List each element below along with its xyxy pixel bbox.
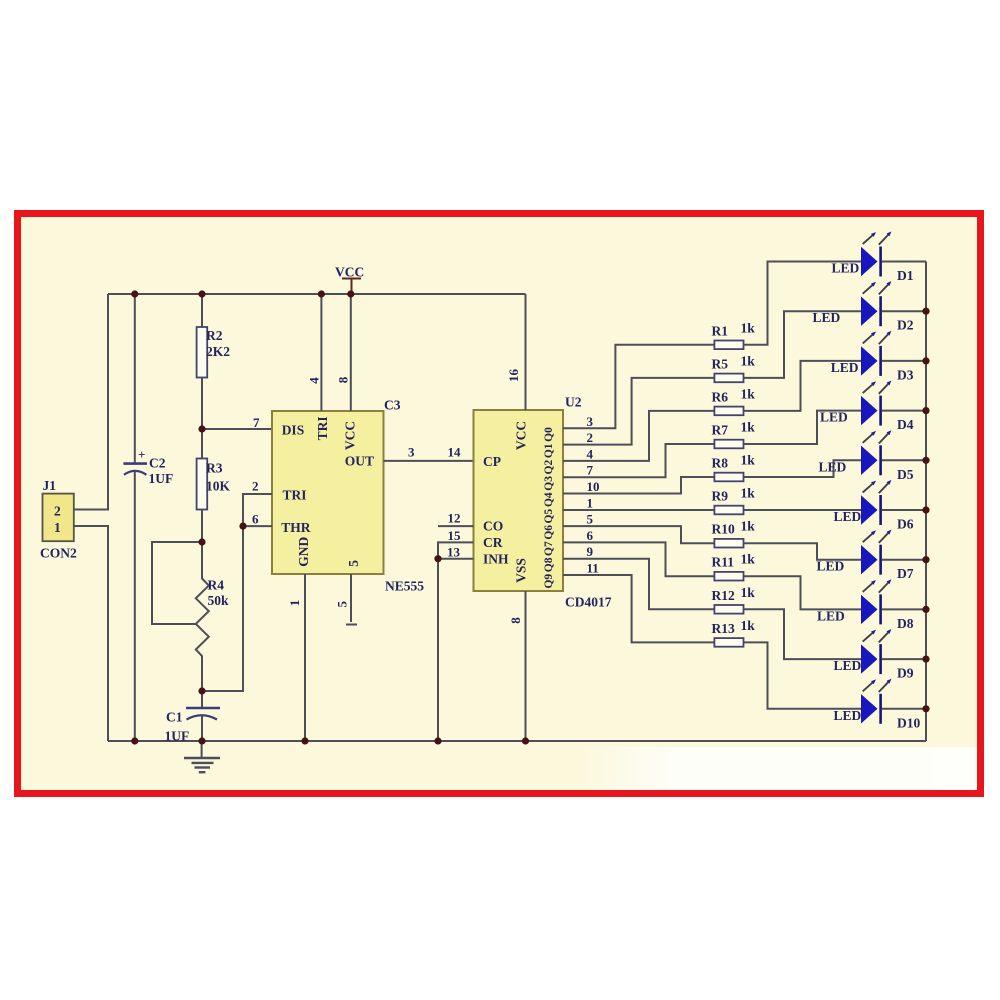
wire C2 branch upper xyxy=(134,294,136,463)
wire VCC top bus xyxy=(108,293,526,295)
svg-text:NE555: NE555 xyxy=(385,579,424,594)
node D6 cathode junction xyxy=(922,506,929,513)
svg-text:LED: LED xyxy=(813,310,841,325)
svg-text:6: 6 xyxy=(587,528,594,543)
svg-text:GND: GND xyxy=(296,536,311,566)
wire R13 to D10 xyxy=(744,642,862,708)
node junction xyxy=(301,737,308,744)
wire R4 to C1 xyxy=(201,691,203,708)
svg-text:C1: C1 xyxy=(166,710,183,725)
svg-text:16: 16 xyxy=(506,369,521,383)
wire R4 wiper bracket xyxy=(152,542,202,624)
LED D9 xyxy=(834,629,914,681)
svg-text:D10: D10 xyxy=(897,715,920,730)
svg-text:8: 8 xyxy=(336,376,351,383)
LED D7 xyxy=(817,530,914,582)
svg-text:D7: D7 xyxy=(897,566,914,581)
svg-text:VSS: VSS xyxy=(514,558,529,583)
svg-text:10K: 10K xyxy=(206,479,231,494)
svg-text:R8: R8 xyxy=(712,456,729,471)
resistor R11 1k xyxy=(712,552,756,581)
capacitor C2 1UF xyxy=(123,447,173,486)
wire D2 cathode to bus xyxy=(882,310,927,312)
svg-text:R10: R10 xyxy=(712,522,735,537)
wire Q9 pin11 to R13 xyxy=(563,575,714,642)
ground xyxy=(184,741,220,772)
wire NE555 pin5 stub xyxy=(350,574,352,622)
wire THR pin6 xyxy=(243,525,272,527)
svg-text:OUT: OUT xyxy=(345,454,374,469)
wire R7 to D4 xyxy=(744,411,862,444)
wire D9 cathode to bus xyxy=(882,658,927,660)
wire D10 cathode to bus xyxy=(882,708,927,710)
wire CD4017 pin8 VSS to GND bus xyxy=(525,591,527,741)
LED D3 xyxy=(831,331,914,383)
wire R8 to D5 xyxy=(744,460,862,477)
svg-text:1: 1 xyxy=(54,520,61,535)
LED D8 xyxy=(817,579,914,631)
node D3 cathode junction xyxy=(922,357,929,364)
svg-text:D3: D3 xyxy=(897,367,914,382)
wire R12 to D9 xyxy=(744,609,862,659)
wire J1 pin2 to VCC bus xyxy=(74,294,108,510)
svg-text:2: 2 xyxy=(54,504,61,519)
wire R3 to R4 xyxy=(201,510,203,580)
wire LED cathode bus xyxy=(925,262,927,742)
node D5 cathode junction xyxy=(922,457,929,464)
svg-text:LED: LED xyxy=(831,360,859,375)
LED D5 xyxy=(819,430,914,482)
svg-text:7: 7 xyxy=(587,463,594,478)
svg-text:TRI: TRI xyxy=(283,488,307,503)
wire Q0 pin3 to R1 xyxy=(563,345,714,429)
svg-text:CO: CO xyxy=(483,519,503,534)
svg-text:LED: LED xyxy=(834,708,862,723)
svg-text:CR: CR xyxy=(483,535,503,550)
svg-text:1: 1 xyxy=(287,600,302,607)
svg-text:R4: R4 xyxy=(208,578,225,593)
wire VCC to R2 xyxy=(201,294,203,327)
svg-text:1k: 1k xyxy=(741,585,756,600)
wire Q7 pin6 to R11 xyxy=(563,542,714,576)
svg-text:Q0: Q0 xyxy=(543,427,555,442)
wire DIS tap to pin7 xyxy=(202,428,272,430)
svg-text:1k: 1k xyxy=(741,353,756,368)
svg-text:1k: 1k xyxy=(741,320,756,335)
svg-text:R5: R5 xyxy=(712,356,729,371)
wire D4 cathode to bus xyxy=(882,410,927,412)
svg-text:Q8: Q8 xyxy=(543,557,555,572)
svg-text:D2: D2 xyxy=(897,318,914,333)
node junction xyxy=(131,737,138,744)
svg-text:+: + xyxy=(138,447,145,462)
wire D1 cathode to bus xyxy=(882,261,927,263)
svg-text:LED: LED xyxy=(832,261,860,276)
svg-text:50k: 50k xyxy=(208,593,230,608)
svg-text:INH: INH xyxy=(483,552,509,567)
wire R1 to D1 xyxy=(744,262,862,345)
LED D2 xyxy=(813,281,914,333)
svg-text:D9: D9 xyxy=(897,666,914,681)
node junction xyxy=(434,555,441,562)
svg-text:R3: R3 xyxy=(206,461,223,476)
svg-text:Q6: Q6 xyxy=(543,525,555,540)
svg-text:Q4: Q4 xyxy=(543,492,555,507)
wire D8 cathode to bus xyxy=(882,608,927,610)
wire CD4017 pin16 to VCC bus xyxy=(525,294,527,410)
svg-text:D5: D5 xyxy=(897,467,914,482)
svg-text:R2: R2 xyxy=(206,328,223,343)
resistor R6 1k xyxy=(712,386,756,415)
svg-text:Q3: Q3 xyxy=(543,476,555,491)
svg-text:D6: D6 xyxy=(897,517,914,532)
resistor R8 1k xyxy=(712,453,756,482)
svg-text:D4: D4 xyxy=(897,417,914,432)
svg-text:1k: 1k xyxy=(741,519,756,534)
LED D6 xyxy=(834,480,914,532)
node junction xyxy=(198,425,205,432)
wire NE555 pin4 to VCC xyxy=(320,294,322,411)
svg-text:LED: LED xyxy=(817,559,845,574)
wire J1 pin1 to GND bus xyxy=(74,526,108,741)
svg-text:TRI: TRI xyxy=(315,416,330,440)
node junction xyxy=(347,290,354,297)
svg-text:1UF: 1UF xyxy=(149,471,174,486)
node junction xyxy=(198,737,205,744)
wire OUT pin3 to CP pin14 xyxy=(384,460,474,462)
svg-text:10: 10 xyxy=(587,479,600,494)
wire Q6 pin5 to R10 xyxy=(563,526,714,543)
svg-text:1k: 1k xyxy=(741,618,756,633)
svg-text:R12: R12 xyxy=(712,588,735,603)
svg-text:13: 13 xyxy=(447,545,461,560)
resistor R9 1k xyxy=(712,486,756,515)
svg-text:Q5: Q5 xyxy=(543,509,555,524)
svg-text:Q9: Q9 xyxy=(543,574,555,589)
svg-text:LED: LED xyxy=(834,509,862,524)
resistor R3 10K xyxy=(197,459,231,510)
svg-text:Q2: Q2 xyxy=(543,460,555,475)
node junction xyxy=(198,538,205,545)
resistor R7 1k xyxy=(712,420,756,449)
connector J1 xyxy=(40,478,77,561)
svg-text:R6: R6 xyxy=(712,389,729,404)
svg-text:U2: U2 xyxy=(565,395,582,410)
svg-text:LED: LED xyxy=(834,658,862,673)
svg-text:5: 5 xyxy=(587,512,594,527)
wire Q8 pin9 to R12 xyxy=(563,559,714,610)
svg-text:DIS: DIS xyxy=(282,423,305,438)
svg-text:2: 2 xyxy=(252,479,259,494)
wire D7 cathode to bus xyxy=(882,559,927,561)
resistor R2 2K2 xyxy=(197,327,231,378)
wire D5 cathode to bus xyxy=(882,459,927,461)
node junction xyxy=(198,290,205,297)
node D9 cathode junction xyxy=(922,656,929,663)
wire NE555 pin8 to VCC xyxy=(350,294,352,411)
node D8 cathode junction xyxy=(922,606,929,613)
svg-text:CD4017: CD4017 xyxy=(565,595,612,610)
svg-text:6: 6 xyxy=(252,512,259,527)
svg-text:5: 5 xyxy=(335,601,350,608)
LED D4 xyxy=(820,381,914,433)
wire NE555 pin1 GND xyxy=(304,574,306,741)
node junction xyxy=(131,290,138,297)
wire R10 to D7 xyxy=(744,543,862,560)
svg-text:C2: C2 xyxy=(149,456,166,471)
node junction xyxy=(434,737,441,744)
svg-text:7: 7 xyxy=(253,415,260,430)
VCC power symbol xyxy=(335,265,364,294)
svg-text:1k: 1k xyxy=(741,486,756,501)
svg-text:1: 1 xyxy=(587,496,594,511)
op-amp U1 NE555 timer xyxy=(272,411,384,574)
resistor R10 1k xyxy=(712,519,756,548)
wire R5 to D2 xyxy=(744,311,862,378)
wire Q4 pin10 to R8 xyxy=(563,477,714,494)
svg-text:1k: 1k xyxy=(741,552,756,567)
node D2 cathode junction xyxy=(922,308,929,315)
wire CR pin15 to GND bus xyxy=(438,542,474,741)
wire R2 to R3 xyxy=(201,378,203,459)
border frame xyxy=(18,214,981,794)
svg-text:1k: 1k xyxy=(741,420,756,435)
svg-text:Q7: Q7 xyxy=(543,541,555,556)
svg-text:D1: D1 xyxy=(897,268,914,283)
svg-text:11: 11 xyxy=(587,561,599,576)
node junction xyxy=(239,523,246,530)
resistor R1 1k xyxy=(712,320,756,349)
wire C1 to GND bus xyxy=(201,716,203,742)
svg-text:D8: D8 xyxy=(897,616,914,631)
svg-text:Q1: Q1 xyxy=(543,443,555,458)
resistor R13 1k xyxy=(712,618,756,647)
node D7 cathode junction xyxy=(922,556,929,563)
wire Q5 pin1 to R9 xyxy=(563,509,714,511)
svg-text:J1: J1 xyxy=(43,478,57,493)
wire R4 bottom feedback to TRI/THR xyxy=(202,526,243,691)
svg-text:VCC: VCC xyxy=(343,421,358,450)
svg-text:LED: LED xyxy=(817,608,845,623)
svg-text:4: 4 xyxy=(587,446,594,461)
LED D1 xyxy=(832,231,914,283)
svg-text:R1: R1 xyxy=(712,323,729,338)
node junction xyxy=(198,687,205,694)
potentiometer R4 50k xyxy=(196,578,229,692)
wire C2 branch lower xyxy=(134,472,136,742)
wire D3 cathode to bus xyxy=(882,360,927,362)
wire D6 cathode to bus xyxy=(882,509,927,511)
svg-text:LED: LED xyxy=(820,410,848,425)
svg-text:12: 12 xyxy=(448,511,461,526)
svg-text:2K2: 2K2 xyxy=(206,344,230,359)
svg-text:CON2: CON2 xyxy=(40,546,77,561)
wire INH pin13 tie xyxy=(437,558,474,560)
node junction xyxy=(522,737,529,744)
node junction xyxy=(318,290,325,297)
svg-text:R13: R13 xyxy=(712,621,735,636)
capacitor C1 1UF xyxy=(165,708,221,744)
wire Q3 pin7 to R7 xyxy=(563,444,714,477)
svg-text:C3: C3 xyxy=(384,398,401,413)
svg-text:5: 5 xyxy=(346,560,361,567)
resistor R5 1k xyxy=(712,353,756,382)
wire CO pin12 stub xyxy=(438,525,474,527)
wire R6 to D3 xyxy=(744,361,862,411)
svg-text:14: 14 xyxy=(448,445,462,460)
svg-text:3: 3 xyxy=(587,414,594,429)
wire GND bottom bus xyxy=(108,740,926,742)
svg-text:4: 4 xyxy=(307,377,322,384)
svg-text:R9: R9 xyxy=(712,489,729,504)
svg-text:R11: R11 xyxy=(712,555,735,570)
svg-text:R7: R7 xyxy=(712,423,729,438)
node D10 cathode junction xyxy=(922,705,929,712)
svg-text:CP: CP xyxy=(483,454,501,469)
svg-text:15: 15 xyxy=(448,528,462,543)
wire TRI pin2 xyxy=(243,494,272,526)
LED D10 xyxy=(834,679,921,731)
svg-text:3: 3 xyxy=(408,445,415,460)
svg-text:9: 9 xyxy=(587,544,594,559)
svg-text:8: 8 xyxy=(508,617,523,624)
svg-text:LED: LED xyxy=(819,459,847,474)
svg-text:VCC: VCC xyxy=(335,265,364,280)
resistor R12 1k xyxy=(712,585,756,614)
node D4 cathode junction xyxy=(922,407,929,414)
wire Q2 pin4 to R6 xyxy=(563,411,714,461)
svg-text:2: 2 xyxy=(587,430,594,445)
svg-text:1k: 1k xyxy=(741,453,756,468)
svg-text:THR: THR xyxy=(281,520,311,535)
wire Q1 pin2 to R5 xyxy=(563,378,714,445)
wire R9 to D6 xyxy=(744,509,862,511)
wire R11 to D8 xyxy=(744,576,862,609)
svg-text:1k: 1k xyxy=(741,386,756,401)
svg-text:1UF: 1UF xyxy=(165,729,190,744)
counter U2 CD4017 xyxy=(474,410,564,591)
svg-text:VCC: VCC xyxy=(514,421,529,450)
